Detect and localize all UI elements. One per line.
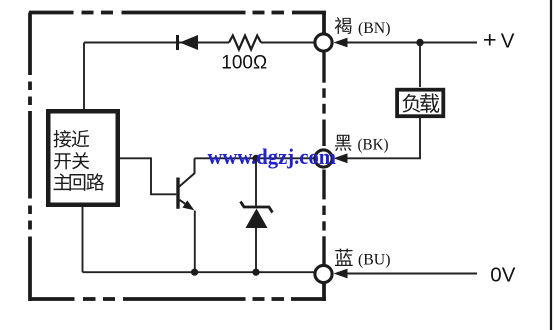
enclosure border: right edge bottom corner segment	[322, 283, 326, 301]
node: zener top junction on output rail	[252, 155, 259, 162]
load box 负载	[397, 90, 443, 117]
enclosure border: right edge top corner segment	[322, 13, 326, 34]
wire: zener branch upper segment	[255, 158, 257, 207]
zener diode ZD1	[241, 202, 273, 229]
wire: zener branch lower segment	[255, 228, 257, 272]
wire: load branch from +V junction down to load box	[419, 43, 421, 88]
proximity switch main circuit box 接近开关主回路	[48, 111, 118, 205]
resistor R1 zigzag on top rail	[229, 36, 261, 50]
enclosure border: right edge dashes between BN and BK terminals	[322, 53, 325, 147]
wire: drop from top rail into main circuit box	[83, 43, 85, 110]
label: 褐 (BN)	[335, 17, 391, 37]
wire: from load box bottom, down and left with arrow into BK terminal	[334, 118, 421, 163]
label: 黑 (BK)	[335, 135, 388, 154]
svg-text:(BN): (BN)	[358, 20, 391, 37]
diode D1 (cathode bar left, anode right) on top rail	[178, 35, 199, 50]
terminal BN (brown)	[315, 34, 332, 51]
enclosure dashed border: top edge	[29, 11, 326, 15]
transistor Q1 (NPN)	[178, 158, 195, 272]
label: 蓝 (BU)	[335, 249, 391, 269]
wire: drop from main circuit box to ground rail	[82, 207, 84, 272]
scan artifact: dark line at image right edge	[550, 0, 552, 330]
svg-text:100Ω: 100Ω	[221, 53, 267, 74]
terminal BU (blue)	[315, 265, 332, 282]
wire: external 0V lead with arrow into BU terminal	[334, 269, 478, 279]
svg-text:www.dgzj.com: www.dgzj.com	[208, 145, 337, 169]
wire: external +V lead with arrow into BN terminal	[334, 38, 478, 48]
node: junction of +V lead and load branch	[416, 39, 423, 46]
wire: base drive from main circuit box to transistor base	[120, 158, 176, 194]
enclosure dashed border: left edge	[28, 13, 32, 302]
svg-text:+V: +V	[483, 27, 515, 53]
enclosure border: right edge dashes between BK and BU terminals	[322, 170, 325, 265]
terminal BK (black)	[315, 150, 332, 167]
svg-text:0V: 0V	[490, 263, 515, 286]
node: zener bottom junction on ground rail	[252, 269, 259, 276]
svg-text:(BK): (BK)	[358, 137, 389, 154]
node: emitter junction on ground rail	[191, 269, 198, 276]
wire: internal output rail from collector to BK terminal	[195, 157, 315, 159]
wire: internal ground rail to BU terminal	[83, 271, 315, 273]
wire: top supply rail from internal node to BN terminal	[84, 42, 315, 44]
svg-text:(BU): (BU)	[358, 252, 391, 269]
enclosure dashed border: bottom edge	[29, 297, 326, 301]
